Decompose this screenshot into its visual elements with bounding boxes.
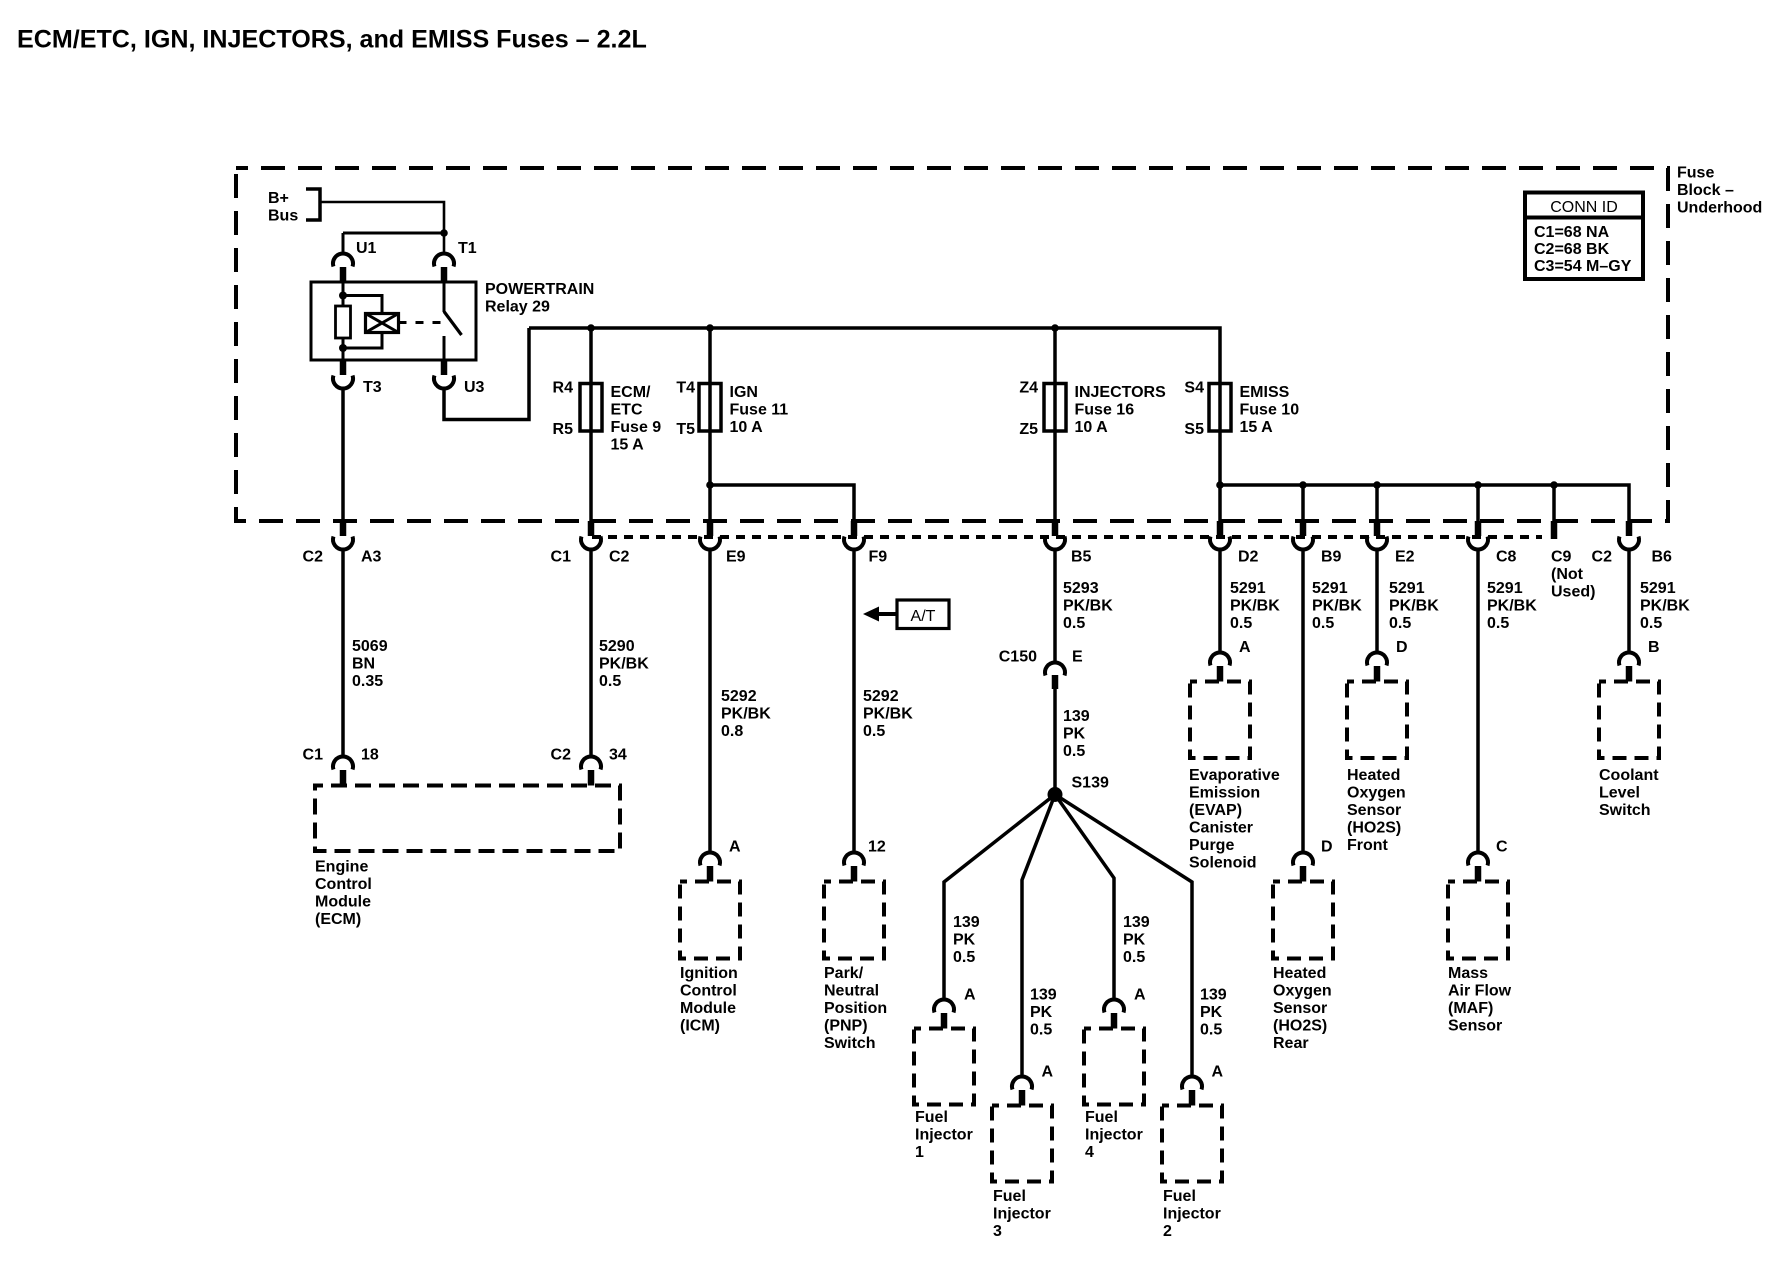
- wire circuit 5291 to HO2S front: [1375, 550, 1379, 654]
- svg-text:R5: R5: [553, 421, 574, 438]
- svg-text:A: A: [729, 839, 741, 856]
- svg-text:PK/BK: PK/BK: [1640, 598, 1690, 615]
- svg-text:5293: 5293: [1063, 580, 1099, 597]
- svg-text:Mass: Mass: [1448, 965, 1488, 982]
- junction B+ node: [440, 229, 448, 237]
- connector E9: [700, 521, 720, 549]
- svg-text:Used): Used): [1551, 584, 1595, 601]
- svg-text:B5: B5: [1071, 549, 1092, 566]
- wire relay actuator link (dashed): [399, 321, 447, 324]
- svg-text:PK/BK: PK/BK: [1389, 598, 1439, 615]
- svg-text:Position: Position: [824, 1000, 887, 1017]
- svg-text:(ICM): (ICM): [680, 1018, 720, 1035]
- junction feeder C8: [1474, 481, 1482, 489]
- svg-text:Z4: Z4: [1019, 380, 1038, 397]
- connector B5: [1045, 521, 1065, 549]
- svg-text:Control: Control: [680, 983, 737, 1000]
- svg-text:Evaporative: Evaporative: [1189, 767, 1280, 784]
- connector E2: [1367, 521, 1387, 549]
- svg-text:(EVAP): (EVAP): [1189, 802, 1242, 819]
- svg-text:Injector: Injector: [915, 1127, 973, 1144]
- wire S139 to injector 4: [1055, 795, 1114, 1001]
- svg-text:A: A: [1042, 1064, 1054, 1081]
- svg-text:5291: 5291: [1389, 580, 1425, 597]
- svg-text:Front: Front: [1347, 837, 1389, 854]
- wire connector row (dotted): [592, 535, 1542, 539]
- component Fuel Injector 4 box: [1084, 1029, 1144, 1105]
- connector B9: [1293, 521, 1313, 549]
- connector T3: [333, 360, 353, 389]
- svg-text:Sensor: Sensor: [1448, 1018, 1502, 1035]
- svg-text:INJECTORS: INJECTORS: [1075, 384, 1167, 401]
- label A/T with arrow: [863, 600, 949, 629]
- connector C2 pin B6: [1619, 521, 1639, 549]
- wire jumper to U1: [343, 232, 444, 235]
- wire U3 to fuse bus: [444, 328, 529, 420]
- svg-text:A: A: [1212, 1064, 1224, 1081]
- svg-text:Canister: Canister: [1189, 820, 1253, 837]
- connector C1/C2: [581, 521, 601, 549]
- svg-text:B: B: [1648, 639, 1660, 656]
- svg-text:T1: T1: [458, 240, 477, 257]
- svg-text:PK: PK: [1063, 726, 1086, 743]
- svg-text:C1: C1: [303, 747, 324, 764]
- connector C9 (not used) stub: [1551, 521, 1558, 539]
- svg-text:Fuse 16: Fuse 16: [1075, 402, 1135, 419]
- resistor relay internal: [336, 306, 351, 338]
- fuse F16 INJECTORS 10A: [1044, 384, 1066, 432]
- svg-text:Level: Level: [1599, 785, 1640, 802]
- svg-text:Module: Module: [680, 1000, 736, 1017]
- svg-text:Sensor: Sensor: [1273, 1000, 1327, 1017]
- svg-text:A: A: [964, 987, 976, 1004]
- svg-text:(MAF): (MAF): [1448, 1000, 1493, 1017]
- connector U3: [434, 360, 454, 389]
- svg-text:PK/BK: PK/BK: [1230, 598, 1280, 615]
- svg-text:C1: C1: [551, 549, 572, 566]
- svg-text:C2: C2: [609, 549, 630, 566]
- svg-text:Fuel: Fuel: [915, 1109, 948, 1126]
- wire circuit 5292 to PNP: [852, 550, 856, 854]
- svg-text:Air Flow: Air Flow: [1448, 983, 1512, 1000]
- svg-text:C150: C150: [999, 649, 1037, 666]
- svg-text:A: A: [1239, 639, 1251, 656]
- svg-text:C3=54 M–GY: C3=54 M–GY: [1534, 258, 1632, 275]
- svg-text:Heated: Heated: [1273, 965, 1326, 982]
- svg-text:Sensor: Sensor: [1347, 802, 1401, 819]
- wire relay coil top: [342, 282, 345, 306]
- svg-text:139: 139: [953, 914, 980, 931]
- connector injector4 pin A: [1104, 1000, 1124, 1029]
- svg-text:0.5: 0.5: [1389, 615, 1411, 632]
- svg-text:Fuse 10: Fuse 10: [1240, 402, 1300, 419]
- splice S139: [1048, 787, 1063, 802]
- svg-text:C9: C9: [1551, 549, 1572, 566]
- wire circuit 5291 to MAF: [1476, 550, 1480, 854]
- svg-text:B6: B6: [1652, 549, 1673, 566]
- wire feeder to E2: [1375, 485, 1379, 521]
- svg-text:139: 139: [1063, 708, 1090, 725]
- connector injector3 pin A: [1012, 1077, 1032, 1106]
- svg-text:15 A: 15 A: [1240, 419, 1274, 436]
- component coolant level switch box: [1599, 682, 1659, 759]
- wire S139 to injector 1: [944, 795, 1055, 1001]
- svg-text:0.5: 0.5: [1230, 615, 1252, 632]
- svg-text:Injector: Injector: [1085, 1127, 1143, 1144]
- wire bus to INJECTORS fuse through fuse: [1053, 328, 1057, 521]
- svg-text:0.5: 0.5: [1030, 1022, 1052, 1039]
- wire feeder to B9: [1301, 485, 1305, 521]
- switch relay contact: [444, 282, 462, 360]
- node B+ Bus: [268, 189, 320, 225]
- svg-text:0.35: 0.35: [352, 673, 383, 690]
- svg-text:C8: C8: [1496, 549, 1517, 566]
- svg-text:BN: BN: [352, 656, 375, 673]
- component EVAP solenoid box: [1190, 682, 1250, 759]
- svg-text:0.5: 0.5: [1123, 949, 1145, 966]
- svg-text:Z5: Z5: [1019, 421, 1038, 438]
- component Fuel Injector 3 box: [992, 1106, 1052, 1182]
- wire S139 to injector 2: [1055, 795, 1192, 1078]
- svg-text:A: A: [1134, 987, 1146, 1004]
- svg-text:EMISS: EMISS: [1240, 384, 1290, 401]
- svg-text:Fuse 9: Fuse 9: [611, 419, 662, 436]
- svg-text:U1: U1: [356, 240, 377, 257]
- wire S139 to injector 3: [1022, 795, 1055, 1078]
- svg-text:E9: E9: [726, 549, 746, 566]
- svg-text:C2=68 BK: C2=68 BK: [1534, 241, 1610, 258]
- svg-text:Module: Module: [315, 894, 371, 911]
- wire circuit 5291 to HO2S rear: [1301, 550, 1305, 854]
- svg-text:Oxygen: Oxygen: [1347, 785, 1406, 802]
- CONN ID table: [1525, 193, 1643, 280]
- svg-text:B+: B+: [268, 190, 289, 207]
- svg-text:ECM/ETC, IGN, INJECTORS, and E: ECM/ETC, IGN, INJECTORS, and EMISS Fuses…: [17, 25, 647, 53]
- svg-text:S139: S139: [1072, 775, 1109, 792]
- component HO2S rear box: [1273, 882, 1333, 959]
- connector injector1 pin A: [934, 1000, 954, 1029]
- svg-text:(PNP): (PNP): [824, 1018, 868, 1035]
- svg-text:Fuel: Fuel: [993, 1188, 1026, 1205]
- svg-text:12: 12: [868, 839, 886, 856]
- svg-text:10 A: 10 A: [730, 419, 764, 436]
- junction feeder E2: [1373, 481, 1381, 489]
- svg-text:S4: S4: [1184, 380, 1204, 397]
- connector C150 pin E: [1045, 663, 1065, 689]
- fuse F10 EMISS 15A: [1209, 384, 1231, 432]
- svg-text:Relay 29: Relay 29: [485, 299, 550, 316]
- svg-text:0.5: 0.5: [1487, 615, 1509, 632]
- wire bus to ECM fuse through fuse: [589, 328, 593, 521]
- svg-text:PK: PK: [1200, 1004, 1223, 1021]
- module PNP box: [824, 882, 884, 959]
- junction bus ECM fuse: [587, 324, 595, 332]
- svg-text:Park/: Park/: [824, 965, 864, 982]
- svg-text:U3: U3: [464, 379, 485, 396]
- junction relay coil bottom: [339, 344, 347, 352]
- svg-text:IGN: IGN: [730, 384, 758, 401]
- connector coolant switch pin B: [1619, 653, 1639, 682]
- svg-text:4: 4: [1085, 1144, 1094, 1161]
- svg-text:D: D: [1321, 839, 1333, 856]
- svg-text:Coolant: Coolant: [1599, 767, 1659, 784]
- svg-text:3: 3: [993, 1223, 1002, 1240]
- connector ICM pin A: [700, 853, 720, 882]
- wire resistor bottom: [342, 338, 345, 360]
- svg-text:5292: 5292: [863, 688, 899, 705]
- svg-text:0.5: 0.5: [1200, 1022, 1222, 1039]
- module ECM box: [315, 786, 620, 852]
- wire B+ feed to T1: [320, 202, 444, 233]
- svg-text:B9: B9: [1321, 549, 1342, 566]
- wire bus to IGN fuse through fuse: [708, 328, 712, 521]
- svg-text:Ignition: Ignition: [680, 965, 738, 982]
- svg-text:T5: T5: [676, 421, 695, 438]
- svg-text:139: 139: [1200, 987, 1227, 1004]
- svg-text:PK: PK: [1030, 1004, 1053, 1021]
- junction feeder C9: [1550, 481, 1558, 489]
- svg-text:D: D: [1396, 639, 1408, 656]
- connector injector2 pin A: [1182, 1077, 1202, 1106]
- svg-text:Bus: Bus: [268, 208, 298, 225]
- svg-text:ETC: ETC: [611, 402, 643, 419]
- connector C8: [1468, 521, 1488, 549]
- svg-text:5291: 5291: [1487, 580, 1523, 597]
- svg-text:Switch: Switch: [1599, 802, 1651, 819]
- svg-text:0.5: 0.5: [1063, 615, 1085, 632]
- svg-text:CONN ID: CONN ID: [1550, 199, 1618, 216]
- svg-text:Heated: Heated: [1347, 767, 1400, 784]
- svg-text:(Not: (Not: [1551, 566, 1584, 583]
- svg-text:C2: C2: [551, 747, 572, 764]
- wire to U1: [342, 233, 345, 253]
- svg-text:Solenoid: Solenoid: [1189, 855, 1257, 872]
- wire relay coil bottom: [343, 333, 382, 349]
- svg-text:0.5: 0.5: [1063, 743, 1085, 760]
- svg-text:5291: 5291: [1640, 580, 1676, 597]
- wire circuit 5290: [589, 550, 593, 758]
- component MAF sensor box: [1448, 882, 1508, 959]
- svg-text:0.8: 0.8: [721, 723, 743, 740]
- svg-text:T3: T3: [363, 379, 382, 396]
- wire feeder to C9: [1552, 485, 1556, 521]
- svg-text:S5: S5: [1184, 421, 1204, 438]
- component HO2S front box: [1347, 682, 1407, 759]
- svg-text:34: 34: [609, 747, 627, 764]
- svg-text:PK/BK: PK/BK: [721, 706, 771, 723]
- wire circuit 139: [1053, 689, 1057, 789]
- connector D2: [1210, 521, 1230, 549]
- svg-text:10 A: 10 A: [1075, 419, 1109, 436]
- svg-text:E2: E2: [1395, 549, 1415, 566]
- component Fuel Injector 1 box: [914, 1029, 974, 1105]
- svg-text:Oxygen: Oxygen: [1273, 983, 1332, 1000]
- svg-text:Fuel: Fuel: [1085, 1109, 1118, 1126]
- svg-text:(HO2S): (HO2S): [1347, 820, 1401, 837]
- svg-text:PK/BK: PK/BK: [599, 656, 649, 673]
- svg-text:F9: F9: [869, 549, 888, 566]
- svg-text:139: 139: [1123, 914, 1150, 931]
- connector C2 pin 34: [581, 757, 601, 786]
- svg-text:Engine: Engine: [315, 859, 368, 876]
- junction relay coil top: [339, 292, 347, 300]
- wire to T1: [443, 233, 446, 253]
- connector HO2S rear pin D: [1293, 853, 1313, 882]
- wire circuit 5293: [1053, 550, 1057, 663]
- svg-text:E: E: [1072, 649, 1083, 666]
- svg-text:1: 1: [915, 1144, 924, 1161]
- svg-text:PK: PK: [953, 932, 976, 949]
- connector F9: [844, 521, 864, 549]
- svg-text:0.5: 0.5: [1640, 615, 1662, 632]
- svg-text:R4: R4: [553, 380, 574, 397]
- svg-text:Purge: Purge: [1189, 837, 1234, 854]
- svg-text:18: 18: [361, 747, 379, 764]
- wire circuit 5291 to EVAP: [1218, 550, 1222, 654]
- svg-text:Injector: Injector: [1163, 1206, 1221, 1223]
- connector EVAP pin A: [1210, 653, 1230, 682]
- junction feeder B9: [1299, 481, 1307, 489]
- wire circuit 5069: [341, 550, 345, 758]
- svg-text:(HO2S): (HO2S): [1273, 1018, 1327, 1035]
- svg-text:2: 2: [1163, 1223, 1172, 1240]
- svg-text:ECM/: ECM/: [611, 384, 652, 401]
- svg-text:0.5: 0.5: [1312, 615, 1334, 632]
- svg-text:Injector: Injector: [993, 1206, 1051, 1223]
- connector PNP pin 12: [844, 853, 864, 882]
- svg-text:Underhood: Underhood: [1677, 200, 1762, 217]
- junction IGN branch: [706, 481, 714, 489]
- wire branch to F9: [710, 485, 854, 521]
- connector HO2S front pin D: [1367, 653, 1387, 682]
- svg-text:C2: C2: [303, 549, 324, 566]
- svg-text:PK/BK: PK/BK: [1487, 598, 1537, 615]
- connector C2 pin A3: [333, 521, 353, 549]
- fuse F11 IGN 10A: [699, 384, 721, 432]
- connector T1: [434, 254, 454, 283]
- wire fuse feed bus: [529, 328, 1220, 521]
- svg-text:Neutral: Neutral: [824, 983, 879, 1000]
- svg-text:D2: D2: [1238, 549, 1259, 566]
- svg-text:C1=68 NA: C1=68 NA: [1534, 224, 1610, 241]
- wire EMISS feeder to B6: [1220, 485, 1629, 521]
- svg-text:POWERTRAIN: POWERTRAIN: [485, 281, 594, 298]
- wire feeder to C8: [1476, 485, 1480, 521]
- svg-text:5069: 5069: [352, 638, 388, 655]
- svg-text:PK/BK: PK/BK: [1312, 598, 1362, 615]
- svg-text:5290: 5290: [599, 638, 635, 655]
- svg-text:C: C: [1496, 839, 1508, 856]
- svg-text:Switch: Switch: [824, 1035, 876, 1052]
- wire circuit 5292 to ICM: [708, 550, 712, 854]
- svg-text:Emission: Emission: [1189, 785, 1260, 802]
- junction EMISS feeder: [1216, 481, 1224, 489]
- fuse F9 ECM/ETC 15A: [580, 384, 602, 432]
- connector U1: [333, 254, 353, 283]
- svg-text:Rear: Rear: [1273, 1035, 1309, 1052]
- svg-text:5292: 5292: [721, 688, 757, 705]
- svg-text:139: 139: [1030, 987, 1057, 1004]
- component Fuel Injector 2 box: [1162, 1106, 1222, 1182]
- svg-text:Control: Control: [315, 876, 372, 893]
- junction bus IGN fuse: [706, 324, 714, 332]
- relay box POWERTRAIN Relay 29: [311, 282, 476, 360]
- wire to relay coil: [343, 296, 382, 315]
- svg-text:Fuse: Fuse: [1677, 165, 1714, 182]
- fuse block underhood dashed border: [236, 168, 1668, 521]
- svg-text:0.5: 0.5: [599, 673, 621, 690]
- wire circuit 5291 to coolant switch: [1627, 550, 1631, 654]
- svg-text:0.5: 0.5: [863, 723, 885, 740]
- svg-text:15 A: 15 A: [611, 437, 645, 454]
- connector C1 pin 18: [333, 757, 353, 786]
- svg-text:Fuse 11: Fuse 11: [730, 402, 789, 419]
- coil relay winding: [366, 314, 399, 333]
- junction bus INJECTORS fuse: [1051, 324, 1059, 332]
- svg-text:(ECM): (ECM): [315, 911, 361, 928]
- module ICM box: [680, 882, 740, 959]
- svg-text:A/T: A/T: [911, 608, 936, 625]
- wire T3 to A3: [341, 390, 345, 522]
- svg-text:PK: PK: [1123, 932, 1146, 949]
- svg-text:0.5: 0.5: [953, 949, 975, 966]
- svg-text:Block –: Block –: [1677, 182, 1734, 199]
- svg-text:5291: 5291: [1230, 580, 1266, 597]
- svg-text:C2: C2: [1592, 549, 1613, 566]
- connector MAF pin C: [1468, 853, 1488, 882]
- svg-text:Fuel: Fuel: [1163, 1188, 1196, 1205]
- svg-text:5291: 5291: [1312, 580, 1348, 597]
- svg-text:A3: A3: [361, 549, 382, 566]
- svg-text:T4: T4: [676, 380, 695, 397]
- svg-text:PK/BK: PK/BK: [863, 706, 913, 723]
- svg-text:PK/BK: PK/BK: [1063, 598, 1113, 615]
